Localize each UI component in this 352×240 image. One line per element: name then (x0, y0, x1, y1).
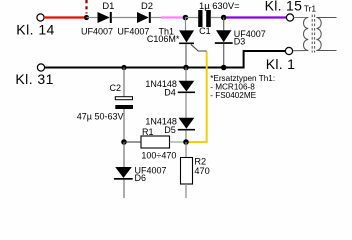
wire D4 to D5 (185, 93, 187, 118)
svg-text:D2: D2 (141, 0, 153, 11)
svg-text:47µ 50-63V: 47µ 50-63V (77, 111, 124, 121)
diode D2 UF4007 (117, 0, 153, 36)
node A (C1 left / Th1 anode) (183, 15, 189, 21)
svg-text:100÷470: 100÷470 (141, 150, 176, 160)
node D5/R1/R2/yellow (183, 139, 189, 145)
node rail/Th1-D4 (183, 65, 189, 71)
C2 bottom lead (123, 109, 125, 142)
wire (186, 17, 199, 19)
diode D1 UF4007 (81, 0, 114, 36)
svg-text:UF4007: UF4007 (81, 26, 113, 36)
wire pink segment to node A (161, 16, 183, 18)
wire ground rail Kl.31 to Kl.1 (44, 51, 285, 68)
terminal Kl. 14 (16, 14, 55, 38)
note Ersatztypen Th1 (210, 74, 275, 100)
diode D6 UF4007 (114, 165, 167, 182)
diode D3 UF4007 (215, 29, 266, 47)
secondary winding (316, 18, 321, 51)
wire (87, 17, 98, 19)
wire R1 right lead (170, 141, 187, 143)
svg-text:1µ 630V=: 1µ 630V= (199, 0, 240, 11)
wire red dashed stub above node (85, 0, 87, 14)
node junction at D1 anode (84, 15, 89, 20)
D3 cathode lead to rail (223, 44, 225, 68)
wire D5 to node (185, 131, 187, 143)
thyristor Th1 anode lead (185, 18, 187, 31)
node rail/C2 (121, 65, 126, 70)
svg-text:D5: D5 (164, 125, 176, 135)
R2 top lead (185, 142, 187, 158)
C2 top lead (123, 68, 125, 97)
svg-text:D3: D3 (234, 37, 246, 47)
wire purple to Kl.15 (227, 16, 287, 18)
core (311, 15, 313, 53)
wire R1 left lead (124, 141, 141, 143)
D4 anode lead (185, 68, 187, 81)
primary winding (304, 18, 309, 51)
svg-text:D4: D4 (164, 88, 176, 98)
svg-text:Tr1: Tr1 (304, 3, 317, 13)
svg-text:R1: R1 (142, 127, 154, 137)
capacitor C2 47u electrolytic (77, 83, 133, 121)
wire yellow gate to R1/D5 node (189, 52, 207, 143)
diode D5 1N4148 (145, 117, 195, 135)
terminal Kl. 31 (37, 64, 44, 71)
diode D4 1N4148 (145, 79, 195, 98)
terminal Kl. 1 (266, 47, 296, 72)
wire (211, 17, 224, 19)
wire (112, 17, 137, 19)
svg-text:470: 470 (194, 166, 209, 176)
svg-text:Kl. 1: Kl. 1 (266, 56, 296, 72)
svg-text:UF4007: UF4007 (117, 26, 149, 36)
svg-text:C1: C1 (199, 26, 211, 36)
terminal Kl. 15 (265, 0, 303, 21)
Th1 gate lead (191, 44, 207, 51)
svg-text:C2: C2 (110, 83, 122, 93)
secondary leads (316, 17, 336, 19)
svg-text:D1: D1 (102, 0, 114, 11)
resistor R1 100-470 (141, 127, 176, 160)
node rail/D3 (221, 65, 227, 71)
wire to transformer primary (293, 17, 308, 19)
Th1 cathode lead to rail (185, 44, 187, 67)
thyristor Th1 C106M (147, 26, 194, 44)
D6 top lead (123, 142, 125, 167)
svg-text:Kl. 14: Kl. 14 (16, 21, 55, 37)
diode D3 anode lead (223, 18, 225, 31)
svg-text:Kl. 31: Kl. 31 (15, 71, 54, 87)
primary bottom lead (292, 50, 308, 52)
svg-text:- FS0402ME: - FS0402ME (210, 91, 256, 100)
transformer Tr1 (292, 3, 336, 52)
node C2/R1/D6 (121, 139, 127, 145)
node B (C1 right / D3 anode) (221, 15, 227, 21)
R2 bottom lead (185, 184, 187, 198)
resistor R2 470 (181, 157, 210, 184)
D6 bottom lead (123, 180, 125, 198)
wire red from Kl.14 to node (44, 16, 87, 18)
svg-text:D6: D6 (135, 173, 147, 183)
wire (151, 17, 161, 19)
svg-text:C106M*: C106M* (147, 34, 180, 44)
svg-text:Kl. 15: Kl. 15 (265, 0, 303, 14)
capacitor C1 1u 630V (198, 0, 240, 36)
